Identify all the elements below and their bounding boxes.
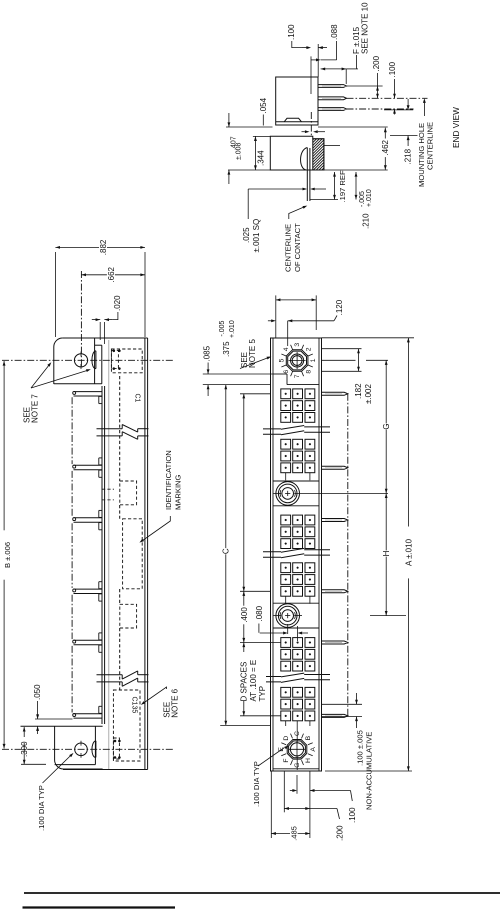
svg-text:A ±.010: A ±.010 xyxy=(404,538,413,566)
svg-text:.182: .182 xyxy=(354,383,363,399)
svg-text:.400: .400 xyxy=(240,607,249,623)
svg-text:.462: .462 xyxy=(381,139,390,155)
svg-text:-.005: -.005 xyxy=(359,191,366,207)
svg-text:.050: .050 xyxy=(33,684,42,700)
svg-text:B: B xyxy=(305,735,312,740)
svg-text:7: 7 xyxy=(294,374,301,378)
svg-text:.020: .020 xyxy=(113,295,122,311)
svg-text:.100: .100 xyxy=(287,24,296,40)
svg-text:C135: C135 xyxy=(131,697,138,714)
svg-text:MARKING: MARKING xyxy=(174,474,183,510)
svg-text:.120: .120 xyxy=(335,299,344,315)
svg-text:H: H xyxy=(305,758,312,763)
svg-text:.088: .088 xyxy=(330,24,339,40)
svg-text:8: 8 xyxy=(305,370,312,374)
svg-text:.085: .085 xyxy=(203,345,212,361)
svg-text:NOTE 6: NOTE 6 xyxy=(170,688,179,717)
svg-text:.344: .344 xyxy=(257,150,266,166)
svg-text:3: 3 xyxy=(294,343,301,347)
svg-text:A: A xyxy=(310,747,317,752)
svg-text:.662: .662 xyxy=(107,266,116,282)
svg-text:NOTE 7: NOTE 7 xyxy=(30,394,39,423)
svg-text:.882: .882 xyxy=(99,239,108,255)
svg-text:-.005: -.005 xyxy=(219,320,226,336)
svg-text:H: H xyxy=(382,550,391,556)
svg-text:NON-ACCUMULATIVE: NON-ACCUMULATIVE xyxy=(365,732,374,810)
svg-text:6: 6 xyxy=(283,370,290,374)
svg-text:+.010: +.010 xyxy=(229,320,236,338)
svg-text:OF CONTACT: OF CONTACT xyxy=(293,223,302,272)
svg-text:AT .100 = E: AT .100 = E xyxy=(249,660,258,702)
svg-text:.100 DIA TYP: .100 DIA TYP xyxy=(37,785,46,831)
svg-text:±.001 SQ: ±.001 SQ xyxy=(252,219,261,253)
svg-text:.025: .025 xyxy=(242,227,251,243)
svg-text:.080: .080 xyxy=(255,605,264,621)
svg-text:CENTERLINE: CENTERLINE xyxy=(426,122,435,170)
svg-text:TYP: TYP xyxy=(258,686,267,702)
svg-text:.210: .210 xyxy=(361,213,370,229)
svg-text:.100 ±.005: .100 ±.005 xyxy=(356,730,365,766)
svg-text:.375: .375 xyxy=(222,341,231,357)
svg-text:D: D xyxy=(283,736,290,741)
svg-text:G: G xyxy=(382,423,391,429)
svg-text:F: F xyxy=(283,758,290,762)
svg-text:.054: .054 xyxy=(259,97,268,113)
svg-text:2: 2 xyxy=(305,347,312,351)
svg-text:SEE NOTE 10: SEE NOTE 10 xyxy=(360,2,369,54)
svg-text:.100 DIA TYP: .100 DIA TYP xyxy=(252,761,261,807)
svg-text:END VIEW: END VIEW xyxy=(451,107,461,148)
svg-text:.485: .485 xyxy=(290,826,299,841)
svg-text:1: 1 xyxy=(310,358,317,362)
svg-text:D SPACES: D SPACES xyxy=(240,662,249,702)
svg-text:.200: .200 xyxy=(372,55,381,71)
svg-text:.100: .100 xyxy=(388,61,397,77)
svg-text:IDENTIFICATION: IDENTIFICATION xyxy=(164,450,173,510)
svg-text:5: 5 xyxy=(278,358,285,362)
svg-text:.100: .100 xyxy=(348,807,357,823)
svg-text:.197 REF: .197 REF xyxy=(338,170,347,202)
svg-text:B ±.006: B ±.006 xyxy=(3,542,12,568)
svg-text:4: 4 xyxy=(283,347,290,351)
svg-text:±.008: ±.008 xyxy=(236,142,243,160)
svg-text:.200: .200 xyxy=(336,825,345,841)
svg-text:C1: C1 xyxy=(134,394,141,403)
svg-text:C: C xyxy=(222,548,231,554)
svg-text:±.002: ±.002 xyxy=(364,383,373,404)
svg-text:.218: .218 xyxy=(404,148,413,164)
svg-text:+.010: +.010 xyxy=(366,189,373,207)
svg-text:CENTERLINE: CENTERLINE xyxy=(284,224,293,272)
